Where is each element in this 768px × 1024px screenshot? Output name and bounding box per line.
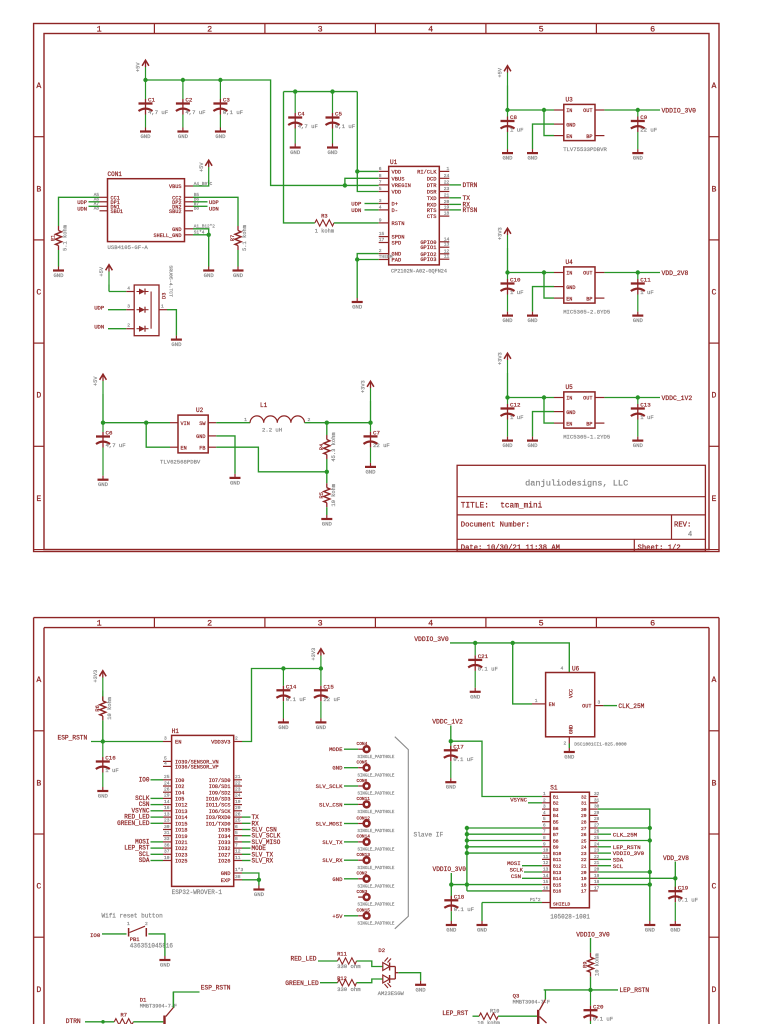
svg-text:Date: 10/30/21 11:38 AM: Date: 10/30/21 11:38 AM [461,544,560,552]
svg-text:IO14: IO14 [175,815,187,821]
svg-text:2: 2 [207,618,212,628]
svg-text:R6: R6 [95,705,101,711]
svg-text:S1: S1 [550,785,558,792]
svg-text:BP: BP [586,421,592,427]
svg-text:EN: EN [549,702,555,708]
svg-text:E: E [712,495,717,504]
svg-text:+5V: +5V [332,913,343,920]
svg-text:SBU2: SBU2 [169,209,181,215]
svg-text:B: B [712,185,717,194]
svg-text:8: 8 [379,173,382,179]
svg-text:4,7 uF: 4,7 uF [106,442,126,449]
svg-text:24: 24 [581,845,587,851]
svg-text:A: A [712,82,717,91]
svg-text:D+: D+ [392,202,398,208]
svg-text:C16: C16 [105,755,116,762]
svg-text:28: 28 [594,817,600,822]
svg-text:GND: GND [233,272,244,279]
svg-text:FB: FB [199,445,205,451]
svg-text:5: 5 [543,817,546,822]
svg-text:A8: A8 [94,207,100,212]
svg-text:GND: GND [564,754,575,761]
svg-text:B13: B13 [553,870,562,876]
svg-text:1: 1 [535,698,538,704]
svg-text:TLV75533PDBVR: TLV75533PDBVR [563,146,607,153]
svg-text:B12: B12 [553,864,562,870]
svg-text:U5: U5 [566,384,574,391]
svg-text:U4: U4 [566,259,574,266]
svg-text:GND: GND [352,304,363,311]
svg-text:Q3: Q3 [513,992,520,999]
svg-text:B7: B7 [553,832,559,838]
svg-text:SINGLE_PADTHOLE: SINGLE_PADTHOLE [358,811,395,815]
svg-text:IO0: IO0 [90,932,101,939]
svg-text:SBU1: SBU1 [111,209,123,215]
svg-text:+5V: +5V [199,162,205,172]
svg-text:0.1 uF: 0.1 uF [286,696,306,703]
svg-text:6: 6 [543,824,546,829]
svg-text:C: C [36,289,41,298]
svg-text:330 ohm: 330 ohm [337,986,361,993]
svg-text:THERM: THERM [379,254,393,260]
svg-text:VIN: VIN [181,421,190,427]
svg-text:SINGLE_PADTHOLE: SINGLE_PADTHOLE [358,793,395,797]
svg-text:GND: GND [502,155,513,162]
svg-text:RTSN: RTSN [463,207,478,214]
svg-text:OUT: OUT [583,271,592,277]
svg-text:24: 24 [235,793,241,799]
svg-text:B16: B16 [553,889,562,895]
svg-text:GND: GND [160,962,171,969]
svg-text:U2: U2 [196,407,204,414]
svg-text:CON4: CON4 [357,741,368,747]
svg-text:GND: GND [527,442,538,449]
svg-text:USB4105-GF-A: USB4105-GF-A [108,244,149,251]
svg-text:B: B [36,185,41,194]
svg-text:4: 4 [543,811,546,816]
svg-text:GPIO3: GPIO3 [420,257,436,263]
svg-text:SCL: SCL [613,863,624,870]
svg-text:10 kohm: 10 kohm [107,697,113,720]
svg-text:C5: C5 [335,111,342,118]
svg-text:1 uF: 1 uF [640,414,653,421]
svg-text:B8: B8 [194,207,200,212]
svg-text:SLV_SCLK: SLV_SCLK [316,783,343,790]
svg-text:UDP: UDP [77,200,87,206]
svg-text:GND: GND [633,155,644,162]
svg-text:SLV_RX: SLV_RX [252,858,274,865]
svg-text:DSR: DSR [427,190,437,196]
svg-text:IO10/SD3: IO10/SD3 [206,797,231,803]
svg-text:+5V: +5V [93,376,99,386]
svg-text:GND: GND [470,693,481,700]
svg-text:0.1 uF: 0.1 uF [453,756,473,763]
svg-text:6: 6 [650,618,655,628]
svg-text:danjuliodesigns, LLC: danjuliodesigns, LLC [525,479,628,489]
svg-text:B: B [712,779,717,788]
svg-text:IO0: IO0 [139,776,150,783]
svg-text:RTS: RTS [427,208,437,214]
svg-text:C21: C21 [478,653,489,660]
svg-text:GND: GND [316,724,327,731]
svg-text:DCD: DCD [427,176,437,182]
svg-text:EN: EN [181,445,187,451]
svg-text:EN: EN [566,134,572,140]
svg-text:32: 32 [581,794,587,800]
svg-text:IO12: IO12 [175,803,187,809]
svg-text:GND: GND [502,317,513,324]
svg-text:UDN: UDN [77,207,87,213]
svg-text:GND: GND [566,410,575,416]
svg-text:DTRN: DTRN [66,1018,81,1024]
svg-text:4: 4 [379,204,382,210]
svg-text:VDDC_1V2: VDDC_1V2 [662,395,693,402]
svg-text:C1: C1 [148,97,155,104]
svg-text:22 uF: 22 uF [323,696,340,703]
svg-text:GND: GND [215,133,226,140]
svg-text:R4: R4 [319,444,325,450]
svg-text:GND: GND [204,272,215,279]
svg-text:ESP_RSTN: ESP_RSTN [58,735,88,742]
svg-text:VSYNC: VSYNC [510,796,527,803]
svg-text:LEP_RSTN: LEP_RSTN [619,987,649,994]
svg-text:+3V3: +3V3 [93,670,99,683]
svg-text:33: 33 [164,836,170,842]
svg-text:1*3: 1*3 [235,867,244,873]
svg-text:CON3: CON3 [357,889,368,895]
svg-text:GND: GND [254,891,265,898]
svg-text:SINGLE_PADTHOLE: SINGLE_PADTHOLE [358,922,395,926]
svg-text:OUT: OUT [583,396,592,402]
svg-text:4: 4 [428,24,433,34]
svg-text:IO5: IO5 [175,797,184,803]
svg-text:22 uF: 22 uF [640,127,657,134]
svg-text:B11: B11 [553,857,562,863]
svg-text:3: 3 [318,24,323,34]
svg-text:PAD: PAD [392,258,402,264]
svg-text:EN: EN [566,296,572,302]
svg-text:14: 14 [444,236,450,242]
svg-text:7: 7 [379,179,382,185]
svg-text:IO4: IO4 [175,790,184,796]
svg-text:1 uF: 1 uF [640,289,653,296]
svg-text:2: 2 [145,921,148,927]
svg-text:0,1 uF: 0,1 uF [335,123,355,130]
svg-text:22 uF: 22 uF [373,442,390,449]
svg-text:6: 6 [235,824,238,830]
svg-text:C18: C18 [454,894,465,901]
svg-text:GND: GND [278,724,289,731]
svg-text:13: 13 [444,242,450,248]
svg-text:23: 23 [581,851,587,857]
svg-text:17: 17 [379,237,385,243]
svg-text:R3: R3 [321,214,327,220]
svg-text:10 kohm: 10 kohm [477,1021,500,1024]
svg-text:18: 18 [444,211,450,217]
svg-text:1: 1 [543,792,546,797]
svg-text:GND: GND [569,725,575,734]
svg-text:IN: IN [566,271,572,277]
svg-text:21: 21 [235,774,241,780]
svg-text:2.2 uH: 2.2 uH [262,427,282,434]
svg-text:C19: C19 [678,884,689,891]
svg-text:A: A [712,676,717,685]
svg-text:GND: GND [230,479,241,486]
svg-text:SLV_TX: SLV_TX [322,839,343,846]
svg-text:C13: C13 [640,402,651,409]
svg-text:GND: GND [446,927,457,934]
svg-text:UDN: UDN [209,207,219,213]
svg-text:GND: GND [365,468,376,475]
svg-text:9: 9 [379,217,382,223]
svg-text:29: 29 [164,793,170,799]
svg-text:GND: GND [53,272,64,279]
svg-text:IO6/SCK: IO6/SCK [209,809,232,815]
svg-text:OUT: OUT [583,108,592,114]
svg-text:28: 28 [581,820,587,826]
svg-text:GND: GND [196,434,205,440]
svg-text:31: 31 [581,801,587,807]
svg-text:B10: B10 [553,851,562,857]
svg-text:11: 11 [444,254,450,260]
svg-text:UDN: UDN [94,324,104,331]
svg-text:5: 5 [539,24,544,34]
svg-text:H1: H1 [172,728,180,735]
svg-text:26: 26 [164,787,170,793]
svg-text:SINGLE_PADTHOLE: SINGLE_PADTHOLE [358,867,395,871]
svg-text:1 uF: 1 uF [510,289,523,296]
svg-text:32: 32 [594,792,600,797]
svg-text:1: 1 [447,166,450,172]
svg-text:4,7 uF: 4,7 uF [148,109,168,116]
svg-text:23: 23 [164,818,170,824]
svg-text:BP: BP [586,296,592,302]
svg-text:Wifi reset button: Wifi reset button [102,912,164,919]
svg-text:+3V3: +3V3 [498,352,504,365]
svg-text:31: 31 [594,798,600,803]
svg-text:C3: C3 [223,97,230,104]
svg-text:17: 17 [594,886,600,891]
svg-text:C14: C14 [286,684,297,691]
svg-text:1: 1 [244,417,247,423]
svg-text:29: 29 [594,811,600,816]
svg-text:21: 21 [581,864,587,870]
svg-text:GND: GND [527,155,538,162]
svg-text:2: 2 [564,741,567,747]
svg-text:B5: B5 [553,820,559,826]
svg-text:IO11/SCS: IO11/SCS [206,803,231,809]
svg-text:U6: U6 [572,665,580,672]
svg-text:R11: R11 [337,951,347,957]
svg-text:22: 22 [235,780,241,786]
svg-text:1 uF: 1 uF [105,767,118,774]
svg-text:UDN: UDN [351,207,361,214]
svg-text:C15: C15 [323,684,334,691]
svg-text:CON6: CON6 [357,778,368,784]
svg-text:7: 7 [543,830,546,835]
svg-text:Slave IF: Slave IF [414,832,444,839]
svg-text:CON13: CON13 [357,852,371,858]
svg-text:TITLE:: TITLE: [461,503,489,511]
svg-text:12: 12 [444,248,450,254]
svg-text:2: 2 [379,248,382,254]
svg-text:GND: GND [477,927,488,934]
svg-text:0.1 uF: 0.1 uF [454,906,474,913]
svg-text:RSTN: RSTN [392,221,405,227]
svg-text:VDD: VDD [392,190,402,196]
svg-text:U3: U3 [566,97,574,104]
svg-text:9: 9 [543,842,546,847]
svg-text:SINGLE_PADTHOLE: SINGLE_PADTHOLE [358,756,395,760]
svg-text:3: 3 [164,736,167,742]
svg-text:IO22: IO22 [175,846,187,852]
svg-text:RED_LED: RED_LED [291,955,317,962]
svg-text:0.1 uF: 0.1 uF [678,897,698,904]
svg-text:GND: GND [327,149,338,156]
svg-text:25: 25 [235,818,241,824]
svg-text:IO21: IO21 [175,840,187,846]
svg-text:2: 2 [308,417,311,423]
svg-text:IO27: IO27 [218,852,230,858]
svg-text:IO8/SD1: IO8/SD1 [209,784,231,790]
svg-text:30: 30 [581,807,587,813]
svg-text:R5: R5 [319,492,325,498]
svg-text:UDP: UDP [94,305,105,312]
svg-text:+5V: +5V [136,62,142,72]
svg-text:GND: GND [221,871,231,877]
svg-text:CON15: CON15 [357,908,371,914]
svg-text:VBUS: VBUS [392,176,405,182]
svg-text:R7: R7 [230,235,236,241]
svg-text:4,7 uF: 4,7 uF [185,109,205,116]
svg-text:14: 14 [164,799,170,805]
svg-text:SINGLE_PADTHOLE: SINGLE_PADTHOLE [358,849,395,853]
svg-text:10 kohm: 10 kohm [595,953,601,976]
svg-text:IO33: IO33 [218,840,230,846]
svg-text:MODE: MODE [329,746,343,753]
svg-text:GND: GND [322,521,333,528]
svg-text:6: 6 [379,166,382,172]
svg-text:16: 16 [543,886,549,891]
svg-text:SINGLE_PADTHOLE: SINGLE_PADTHOLE [358,885,395,889]
svg-text:18: 18 [581,882,587,888]
svg-text:MIC5365-2.8YD5: MIC5365-2.8YD5 [563,309,610,316]
svg-text:GND: GND [98,481,109,488]
svg-text:GND: GND [332,765,343,772]
svg-text:VDDIO_3V0: VDDIO_3V0 [414,636,449,643]
svg-text:R12: R12 [337,976,347,982]
svg-text:AM23ESGW: AM23ESGW [378,991,405,997]
svg-text:GND: GND [645,927,656,934]
svg-text:DSC1001CI1-025.0000: DSC1001CI1-025.0000 [574,742,627,748]
svg-text:IO18: IO18 [175,828,187,834]
svg-text:D1: D1 [140,996,147,1003]
svg-text:0,1 uF: 0,1 uF [223,109,243,116]
svg-text:CSN: CSN [511,873,521,880]
svg-text:+5V: +5V [99,266,105,276]
svg-text:3: 3 [127,304,130,310]
svg-text:IO9/SD2: IO9/SD2 [209,790,231,796]
svg-text:CON14: CON14 [357,834,371,840]
svg-text:B: B [36,779,41,788]
svg-text:D: D [36,986,41,995]
svg-text:25: 25 [581,838,587,844]
svg-text:IO3/RXD0: IO3/RXD0 [206,815,231,821]
svg-text:GND: GND [178,133,189,140]
svg-text:4: 4 [688,531,692,539]
svg-text:B8: B8 [553,838,559,844]
svg-text:L1: L1 [260,402,268,409]
svg-text:VDDC_1V2: VDDC_1V2 [432,718,463,725]
svg-text:CON2: CON2 [357,871,368,877]
svg-text:VDD3V3: VDD3V3 [211,740,230,746]
svg-text:SLV_MOSI: SLV_MOSI [316,821,343,828]
svg-text:EXP: EXP [221,878,231,884]
svg-text:13: 13 [164,811,170,817]
svg-text:IO0: IO0 [175,778,184,784]
svg-text:1: 1 [127,921,130,927]
svg-text:16: 16 [164,805,170,811]
svg-text:EN: EN [175,740,181,746]
svg-text:4: 4 [428,618,433,628]
svg-text:C4: C4 [298,111,305,118]
svg-text:8: 8 [543,836,546,841]
svg-text:D: D [36,392,41,401]
svg-text:ESP32-WROVER-1: ESP32-WROVER-1 [172,889,223,896]
svg-text:GPIO1: GPIO1 [420,245,436,251]
svg-text:C: C [712,883,717,892]
svg-text:C2: C2 [185,97,192,104]
svg-text:8: 8 [235,836,238,842]
svg-text:10: 10 [164,855,170,861]
svg-text:29: 29 [581,813,587,819]
svg-text:2: 2 [543,798,546,803]
svg-text:105028-1001: 105028-1001 [550,914,590,921]
svg-text:C17: C17 [453,744,464,751]
svg-text:31: 31 [164,830,170,836]
svg-text:3: 3 [598,699,601,705]
svg-text:GREEN_LED: GREEN_LED [285,980,319,987]
svg-text:CON12: CON12 [357,815,371,821]
svg-text:36: 36 [164,842,170,848]
svg-text:2: 2 [127,323,130,329]
svg-text:DTR: DTR [427,183,437,189]
svg-text:EN: EN [566,421,572,427]
svg-text:R7: R7 [121,1013,127,1019]
svg-text:C: C [36,883,41,892]
svg-text:GND: GND [633,317,644,324]
svg-text:E: E [36,495,41,504]
svg-text:IO26: IO26 [218,859,230,865]
svg-text:CON11: CON11 [357,796,371,802]
svg-text:A: A [36,82,41,91]
svg-text:C12: C12 [510,402,521,409]
svg-text:IO25: IO25 [175,859,187,865]
svg-text:TLV62568PDBV: TLV62568PDBV [160,459,201,466]
svg-text:D: D [712,392,717,401]
svg-text:15: 15 [379,231,385,237]
svg-text:26: 26 [581,832,587,838]
svg-text:10: 10 [543,849,549,854]
svg-text:30: 30 [164,824,170,830]
svg-text:C11: C11 [640,277,651,284]
svg-text:B4: B4 [553,813,559,819]
svg-text:C: C [712,289,717,298]
svg-text:11: 11 [543,855,549,860]
svg-text:13: 13 [543,868,549,873]
svg-text:14: 14 [543,874,549,879]
svg-text:CLK_25M: CLK_25M [618,703,644,710]
